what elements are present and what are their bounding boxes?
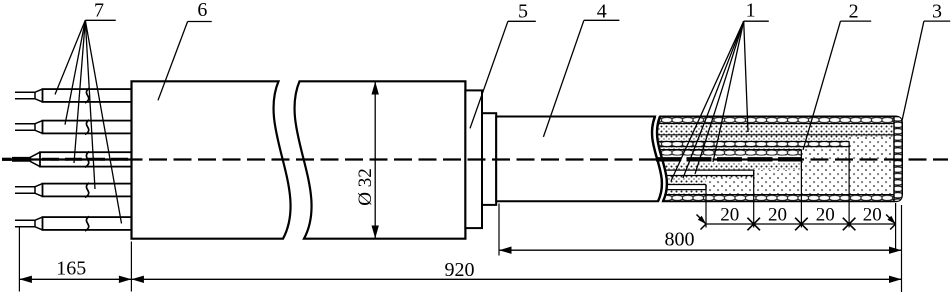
svg-text:20: 20: [768, 205, 787, 226]
extension line step 801: [800, 150, 802, 228]
extension line step 849: [848, 141, 850, 227]
svg-text:4: 4: [597, 1, 607, 23]
end plug braid: [894, 117, 902, 201]
svg-text:Ø 32: Ø 32: [355, 168, 376, 205]
sheath wall braid bottom: [648, 195, 894, 201]
tube 4 break S-curve left: [652, 117, 662, 202]
lead taper 4: [35, 184, 43, 197]
svg-text:20: 20: [816, 205, 835, 226]
label 5 shelf: [508, 20, 536, 22]
sheath inner wall lines: [650, 124, 894, 195]
center lead sleeve: [40, 152, 132, 166]
lead sleeve 4: [43, 184, 132, 197]
tick arrow 706: [697, 215, 707, 230]
label 7 leaders: [55, 20, 122, 223]
sheath break S-curve right: [657, 117, 667, 202]
center lead solid wire: [12, 157, 31, 162]
label 3 leader: [902, 21, 924, 123]
sheath outer shell: [657, 117, 902, 202]
center lead inner dashes: [42, 158, 131, 161]
extension line step 896: [895, 203, 897, 250]
center lead taper: [31, 152, 41, 166]
label 2 shelf: [841, 20, 872, 22]
extension line right end: [901, 205, 903, 292]
connector body 6 right piece: [295, 81, 466, 238]
svg-text:20: 20: [863, 205, 882, 226]
label 3 shelf: [924, 20, 950, 22]
lead wire pair 5: [15, 220, 35, 227]
center lead thick dash tail: [2, 158, 12, 161]
svg-text:2: 2: [849, 1, 859, 23]
lead taper 1: [35, 89, 43, 102]
lead sleeve 1: [43, 89, 132, 102]
extension line tube start: [498, 204, 500, 256]
tick cross 801: [795, 218, 808, 231]
sleeve break squiggle 3: [85, 151, 89, 167]
outer cable wall line A: [650, 134, 894, 136]
tick cross 754: [747, 218, 760, 231]
label 4 shelf: [584, 19, 620, 21]
label 2 leader: [803, 21, 841, 150]
label 7 shelf: [85, 19, 115, 21]
dimension 165 arrows: [19, 276, 32, 283]
main centerline: [2, 158, 948, 160]
lead sleeve 2: [43, 121, 132, 134]
step collar 5: [465, 90, 482, 228]
end plug inner line: [893, 117, 895, 201]
tick cross 849: [843, 218, 856, 231]
insulation void coarse dots: [706, 137, 894, 195]
lead wire pair 4: [15, 187, 35, 194]
sleeve break squiggle 2: [85, 120, 89, 135]
svg-text:3: 3: [932, 1, 942, 23]
svg-text:800: 800: [665, 229, 695, 251]
flange ring: [482, 113, 496, 205]
label 6 shelf: [188, 21, 212, 23]
svg-text:165: 165: [56, 258, 86, 280]
tube 4 body: [496, 117, 662, 202]
extension line step 754: [753, 172, 755, 228]
svg-text:1: 1: [746, 0, 756, 22]
svg-text:920: 920: [445, 259, 475, 281]
central cable top braid band: [650, 150, 801, 156]
dimension 800 line: [499, 249, 902, 251]
central cable white core band: [650, 156, 801, 163]
diameter arrow down: [372, 226, 379, 239]
sleeve break squiggle 4: [85, 183, 89, 198]
thermocouple cable pair E: [650, 170, 754, 176]
connector body 6 left piece: [132, 81, 291, 238]
sleeve break squiggle 5: [85, 216, 89, 231]
sheath wall braid top: [648, 117, 894, 123]
label 4 leader: [543, 20, 584, 137]
label 6 leader: [158, 22, 188, 101]
central thermocouple thick dashed core: [656, 157, 801, 161]
dimension 800 arrows: [499, 247, 512, 254]
extension line step 706: [705, 185, 707, 228]
svg-text:6: 6: [197, 0, 207, 21]
sheath interior insulation fine dots: [648, 124, 894, 196]
dimension 20 chain line: [706, 223, 896, 225]
svg-text:7: 7: [94, 0, 104, 22]
dimension 920 arrows: [131, 276, 144, 283]
thermocouple cable braid band B: [650, 141, 849, 147]
dimension 920 line: [131, 278, 901, 280]
lead sleeve 5: [43, 217, 132, 230]
lead taper 2: [35, 121, 43, 134]
label 5 leader: [470, 21, 508, 128]
extension line body left edge: [130, 242, 132, 292]
svg-text:5: 5: [518, 1, 528, 23]
diameter arrow up: [372, 82, 379, 95]
svg-text:20: 20: [720, 205, 739, 226]
diameter dimension line: [374, 82, 376, 239]
label 1 leaders: [671, 21, 748, 181]
extension line left of 165: [18, 226, 20, 292]
label 1 shelf: [744, 20, 769, 22]
lead taper 5: [35, 217, 43, 230]
thermocouple cable pair F: [650, 184, 706, 191]
tick arrow 896: [886, 215, 896, 230]
lead wire pair 2: [15, 124, 35, 131]
lead wire pair 1: [15, 92, 35, 99]
sleeve break squiggle 1: [85, 88, 89, 103]
dimension 165 line: [19, 278, 131, 280]
